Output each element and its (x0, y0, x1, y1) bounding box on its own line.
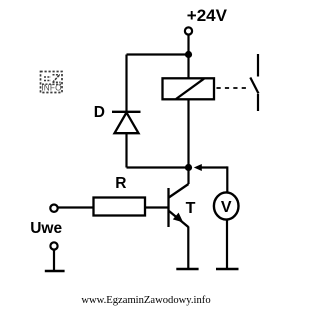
watermark text (3, 295, 289, 306)
wire: resistor to transistor base (145, 206, 168, 208)
diode D (112, 112, 141, 133)
wire: diode branch to node B (bottom horizontal) (127, 166, 189, 168)
ground (voltmeter) (216, 268, 239, 270)
transistor T (169, 184, 189, 227)
input terminal Uwe (50, 205, 57, 212)
relay coil K (163, 78, 215, 99)
svg-text:V: V (221, 199, 232, 216)
wire: voltmeter to ground (226, 220, 228, 269)
wire: node A to diode branch (top horizontal) (127, 53, 189, 55)
node B (collector junction) (185, 164, 192, 171)
resistor R (94, 198, 146, 216)
watermark logo EZ INFO (41, 72, 63, 93)
wire: node B to collector (187, 168, 189, 185)
wire: input terminal to resistor (58, 206, 94, 208)
ground terminal (input reference) (45, 242, 65, 271)
wire: node A to relay coil top (187, 55, 189, 79)
svg-text:+24V: +24V (187, 6, 228, 25)
node A (junction at relay top) (185, 51, 192, 58)
svg-text:INFO: INFO (41, 84, 61, 93)
svg-text:T: T (186, 200, 196, 217)
wire: diode to node B (vertical bottom) (125, 133, 127, 168)
arrow: voltmeter sense wire into node B (194, 164, 228, 193)
mechanical link (dashed) (217, 87, 249, 89)
wire: emitter to ground (187, 227, 189, 270)
svg-text:R: R (115, 175, 126, 192)
svg-text:Uwe: Uwe (30, 220, 62, 237)
wire: supply terminal to node A (187, 35, 189, 55)
svg-text:D: D (94, 104, 105, 121)
voltmeter V (214, 192, 239, 219)
ground (emitter) (176, 268, 198, 270)
wire: relay coil bottom to node B (187, 99, 189, 167)
supply terminal (185, 27, 192, 34)
switch contact S (250, 54, 258, 111)
wire: diode branch vertical (top) (125, 55, 127, 113)
